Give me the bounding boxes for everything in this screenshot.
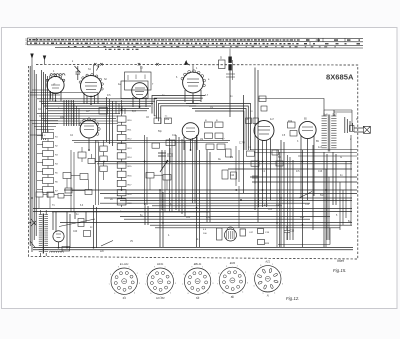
svg-text:1: 1 [272,264,273,266]
svg-text:3: 3 [282,283,283,285]
tube V1 [47,76,64,93]
tube V7 [254,121,274,141]
wire nested bus B [152,96,205,114]
svg-text:1M: 1M [200,139,203,141]
junction dots [55,100,57,102]
wire right bus [345,117,353,133]
svg-text:C13: C13 [305,204,310,206]
svg-text:2: 2 [281,272,282,274]
svg-text:2: 2 [173,273,174,275]
svg-text:Inlet: Inlet [337,259,345,263]
svg-text:R5a: R5a [165,119,170,121]
svg-text:C12: C12 [172,135,177,137]
tube V6 [182,123,199,140]
svg-text:9: 9 [191,267,192,269]
svg-text:EBL41: EBL41 [194,262,202,266]
svg-text:R24: R24 [288,121,293,123]
tube socket EM4 [219,267,245,293]
wire V2 top stub [94,65,100,76]
svg-text:F: F [54,83,56,87]
table tiny text rows [29,40,360,50]
wire nested verticals mid [74,104,79,126]
svg-text:8: 8 [260,265,261,267]
svg-text:7: 7 [253,274,254,276]
svg-text:3: 3 [139,283,140,285]
resistor ladder R10-R19 [121,100,123,207]
tube V3 [132,83,148,99]
wire long mid rails [95,162,357,183]
capacitor C9b [261,106,267,111]
svg-text:7: 7 [145,284,146,286]
component group V7 bias [247,151,255,156]
svg-text:9: 9 [154,267,155,269]
svg-text:D: D [220,56,222,60]
wire left bends [30,121,58,136]
wire v7 pin ext [238,186,240,228]
svg-text:9: 9 [226,266,227,268]
svg-text:6: 6 [188,293,189,295]
svg-text:R,C: R,C [132,111,136,113]
wire left ladder stubs [37,136,43,190]
svg-text:R25: R25 [268,209,273,211]
svg-text:6: 6 [150,293,151,295]
wire mid verticals right [277,150,290,247]
svg-text:2: 2 [210,273,211,275]
antenna arrow 2 [43,56,46,65]
tube socket EBL41 [184,268,210,294]
svg-text:1: 1 [128,266,129,268]
svg-text:C20: C20 [73,231,78,233]
svg-text:9: 9 [118,267,119,269]
annotation diagonal left [59,219,95,227]
wire right risers [326,161,346,247]
svg-text:1: 1 [165,266,166,268]
svg-text:AZ1: AZ1 [264,259,270,263]
resistor box R21 [166,140,175,146]
wire nested bus C [186,104,251,151]
speaker terminal [363,126,370,133]
trim arrow A [185,61,190,66]
power transformer T1 [39,214,43,216]
divider group [36,192,43,197]
tube V8 [299,121,316,138]
wire left bus [30,65,36,252]
power components group [52,211,210,213]
variable capacitor C1 [75,66,81,80]
wire band-to-ladder bends [116,101,125,114]
wire mid vertical pairs [145,135,196,212]
tube V4 [183,72,204,93]
terminal box D [219,60,226,69]
svg-text:7: 7 [109,284,110,286]
wire right mid rails [250,150,357,157]
svg-text:E.LH21: E.LH21 [120,262,129,266]
junction box [99,108,108,115]
svg-text:1C: 1C [165,116,168,118]
svg-text:C15: C15 [290,231,295,233]
svg-text:3: 3 [175,283,176,285]
svg-text:8X685A: 8X685A [326,72,354,81]
wire mid pair y141 [72,141,230,143]
potentiometer VOL [158,150,168,172]
svg-text:C425: C425 [276,205,282,207]
wire spk drop [351,110,353,126]
svg-text:2M: 2M [230,157,233,159]
tube socket E.LH21 [111,268,137,294]
resistor group R6-R8 [103,140,105,180]
svg-text:3: 3 [212,283,213,285]
svg-text:HC-B3: HC-B3 [156,296,165,300]
antenna arrow 1 [31,54,34,66]
svg-text:C19: C19 [206,217,211,219]
svg-text:S4: S4 [196,296,200,300]
svg-text:R31: R31 [300,217,305,219]
svg-text:8: 8 [146,274,147,276]
table separators [310,38,345,45]
wire ladder feeders [107,97,113,146]
resistor R9a [246,118,252,124]
capacitor C9a [259,96,266,102]
resistor box R22 [152,143,160,148]
tube socket EF41 [147,268,173,294]
tone network group [63,173,71,179]
resistor ladder R1-R5 [47,130,49,198]
wire left bus 2 [42,70,48,140]
capacitor C8 [167,148,173,163]
filter choke L1 [50,251,52,252]
resistor R24a [288,122,296,128]
tube V2 [81,76,102,97]
wire bottom bus [104,197,352,199]
wire tube drops [51,91,95,104]
tube socket AZ1 [255,266,281,292]
tube V5 [80,120,98,138]
svg-text:6: 6 [222,292,223,294]
svg-text:8: 8 [218,273,219,275]
svg-text:4: 4 [134,292,135,294]
svg-text:R30: R30 [186,217,191,219]
svg-text:Fig.12.: Fig.12. [286,296,299,301]
svg-text:6: 6 [114,293,115,295]
electrode E [228,57,231,63]
svg-text:61484: 61484 [265,292,270,294]
svg-text:C16: C16 [318,171,323,173]
wire V4 top stub [192,65,194,72]
matching box [350,126,355,132]
annotation diagonal 2 [299,192,312,199]
wire right loop [278,135,351,245]
wire nested lower rows [37,114,120,119]
svg-text:1: 1 [202,266,203,268]
svg-text:7: 7 [182,284,183,286]
svg-text:2: 2 [245,272,246,274]
annotation diagonal 1 [101,241,113,247]
svg-text:5u6: 5u6 [324,114,329,117]
svg-text:C.7M: C.7M [239,142,245,145]
wire het line [259,99,325,111]
wire drop lines top-mid [244,68,259,223]
svg-text:6: 6 [254,286,255,288]
svg-text:4: 4 [170,292,171,294]
rectifier filter group [225,229,237,241]
svg-text:7: 7 [217,283,218,285]
svg-text:5: 5 [263,293,264,295]
svg-text:5u7: 5u7 [333,114,338,117]
svg-text:4: 4 [274,292,275,294]
svg-text:Bo: Bo [231,295,235,299]
wire bottom verticals [67,135,336,248]
svg-text:3: 3 [247,282,248,284]
border feedthrough marks [94,63,96,66]
svg-text:1: 1 [237,266,238,268]
mains switch [30,219,36,248]
resistor R9b [253,118,259,124]
wire long mid rails 2 [64,190,357,194]
wire mid vertical x165 [162,150,165,212]
svg-text:S1: S1 [122,296,126,300]
svg-text:Fig.15.: Fig.15. [333,268,346,273]
wire left-mid verticals [71,140,99,212]
chassis dashed border [29,64,358,259]
table rule lines [27,38,363,48]
rectifier tube V9 [53,231,64,242]
svg-text:EF41: EF41 [157,262,164,266]
output transformer T2 [322,115,327,117]
wire nested rows low [44,121,120,124]
svg-text:C14: C14 [230,175,235,177]
capacitor row boxes [154,118,161,124]
coil L2 scallops [50,74,53,76]
svg-text:EM4: EM4 [230,261,236,265]
svg-text:8: 8 [110,274,111,276]
resistor R24b [290,131,297,137]
component group mid [205,122,213,127]
svg-text:2: 2 [137,273,138,275]
svg-text:8: 8 [184,274,185,276]
IF transformer box S2 [125,72,152,90]
electrode feed dash [229,49,231,57]
wire nested bus A [37,98,157,100]
svg-text:4: 4 [242,292,243,294]
svg-text:4: 4 [207,292,208,294]
wire bottom rail double [33,248,353,250]
wire top horizontals [30,90,98,95]
capacitor group mid-left [78,152,86,158]
svg-text:R3a: R3a [60,117,65,119]
